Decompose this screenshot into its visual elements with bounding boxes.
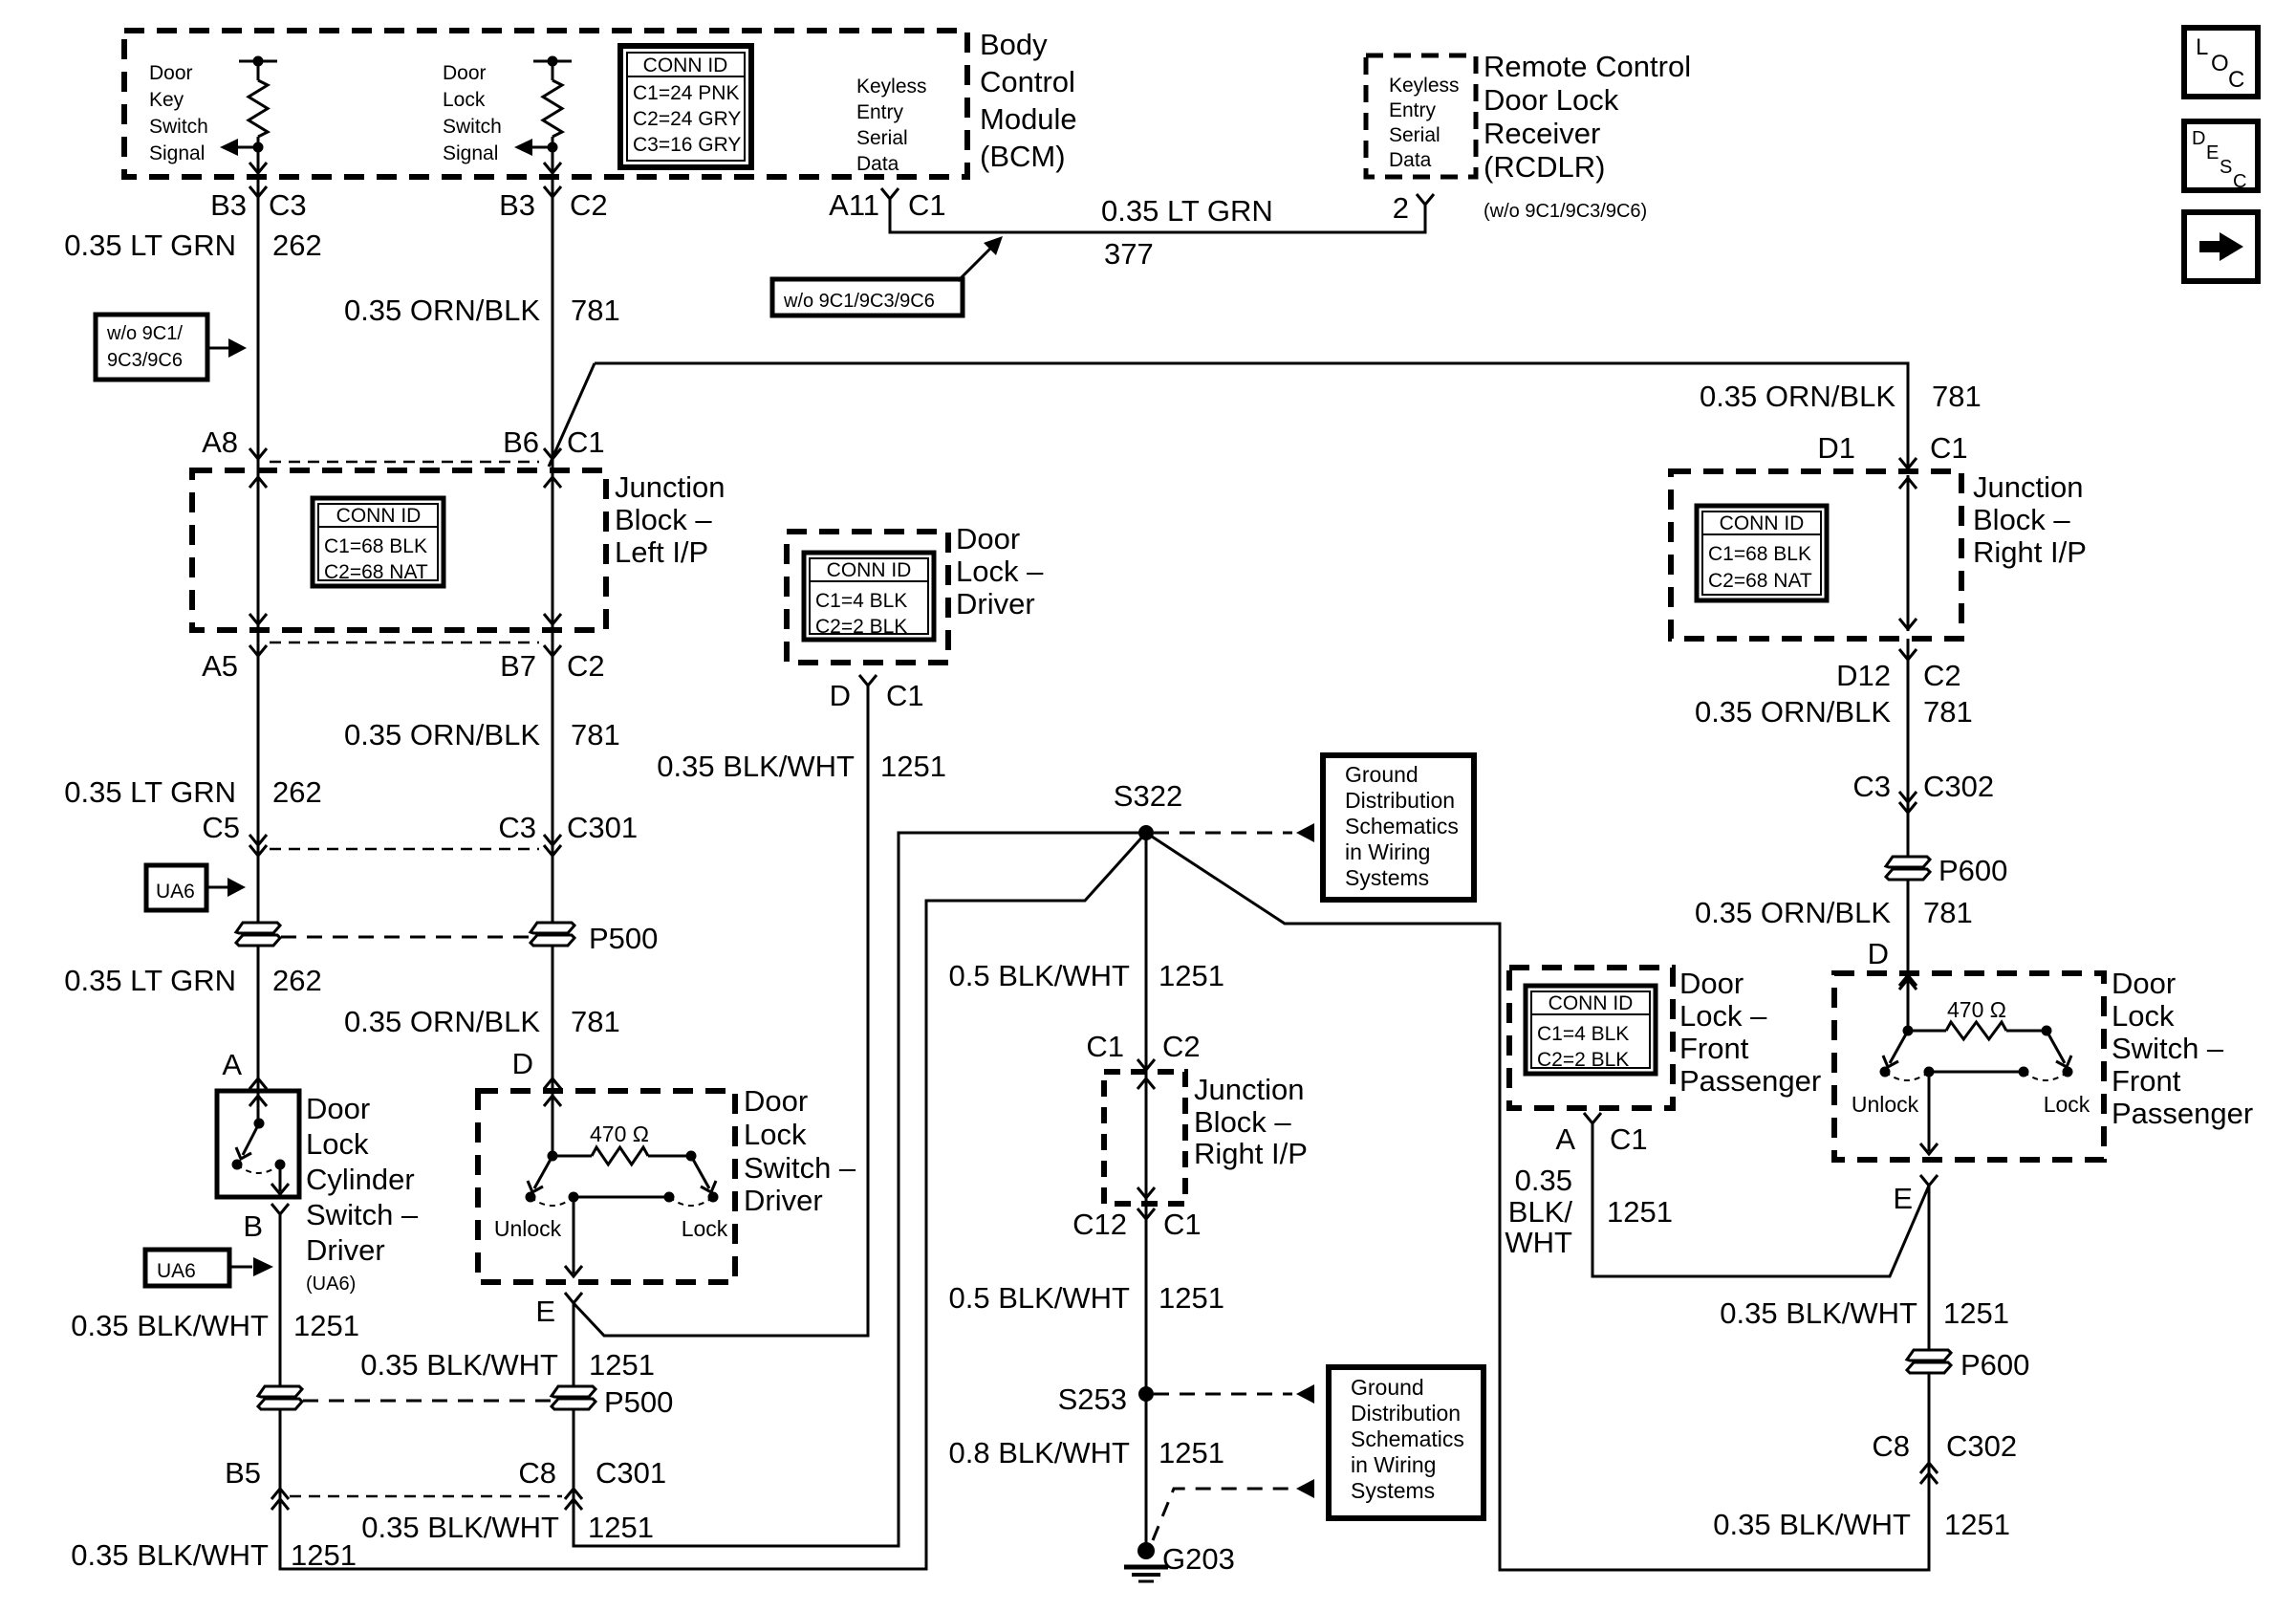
pin label A C1 (passenger door lock): [1555, 1122, 1647, 1156]
pin label B (cylinder switch): [243, 1209, 263, 1243]
pin label Keyless Entry Serial Data (BCM): [856, 76, 927, 175]
svg-text:Entry: Entry: [1389, 99, 1437, 121]
svg-text:1251: 1251: [1159, 1436, 1224, 1469]
option flag box w/o 9C1/9C3/9C6 (serial data): [772, 236, 1003, 316]
svg-text:781: 781: [571, 294, 620, 327]
svg-text:D: D: [830, 679, 851, 712]
svg-text:470 Ω: 470 Ω: [1947, 997, 2006, 1022]
connector table CONN ID Right I/P: [1697, 506, 1827, 600]
svg-text:G203: G203: [1162, 1542, 1235, 1576]
svg-text:P500: P500: [604, 1385, 673, 1419]
switch SW2 Door Lock Switch - Driver box: [478, 1091, 735, 1282]
svg-text:C3: C3: [269, 188, 307, 222]
svg-text:781: 781: [1923, 695, 1973, 729]
wire 1251 BLK/WHT from passenger door lock A/C1 to switch E: [1584, 1113, 1929, 1276]
svg-text:0.35 BLK/WHT: 0.35 BLK/WHT: [71, 1309, 269, 1342]
svg-text:Door: Door: [2112, 967, 2176, 1000]
wire 1251 BLK/WHT from S322 to passenger switch E loop: [1146, 833, 1938, 1570]
svg-text:0.35 LT GRN: 0.35 LT GRN: [64, 229, 236, 262]
svg-text:2: 2: [1393, 191, 1409, 225]
dashed link P500 lower: [303, 1400, 551, 1403]
wire label 0.35 ORN/BLK 781 (right top): [1700, 380, 1982, 413]
svg-text:UA6: UA6: [156, 881, 195, 903]
svg-text:Block –: Block –: [615, 503, 712, 536]
svg-text:A: A: [1555, 1122, 1575, 1156]
svg-text:C1: C1: [908, 188, 946, 222]
svg-text:C2=68 NAT: C2=68 NAT: [1708, 570, 1812, 592]
connector box Door Lock - Driver: [787, 532, 948, 663]
legend box DESC: [2184, 121, 2258, 192]
junction block Right I/P box (middle): [1104, 1072, 1185, 1204]
wire label 0.35 ORN/BLK 781 (lower): [344, 1005, 620, 1038]
svg-text:0.35 LT GRN: 0.35 LT GRN: [64, 775, 236, 809]
svg-text:Schematics: Schematics: [1351, 1426, 1464, 1451]
component name text Door Lock Switch - Driver: [744, 1084, 856, 1217]
svg-text:C1=4 BLK: C1=4 BLK: [1537, 1023, 1629, 1045]
svg-text:Lock: Lock: [2112, 999, 2175, 1033]
dashed link P500 columns A-D: [281, 936, 529, 939]
component name text Door Lock Switch - Front Passenger: [2112, 967, 2253, 1130]
svg-text:C8: C8: [1872, 1429, 1910, 1463]
svg-text:UA6: UA6: [157, 1260, 196, 1282]
svg-text:0.35 BLK/WHT: 0.35 BLK/WHT: [361, 1511, 559, 1544]
svg-text:C1: C1: [567, 425, 605, 459]
connector table CONN ID Door Lock Front Passenger: [1526, 986, 1656, 1074]
svg-text:C8: C8: [518, 1456, 556, 1490]
svg-text:Switch: Switch: [149, 116, 208, 138]
svg-text:262: 262: [272, 229, 322, 262]
svg-text:Switch: Switch: [443, 116, 502, 138]
svg-text:Lock –: Lock –: [1679, 999, 1767, 1033]
svg-text:CONN ID: CONN ID: [336, 505, 422, 527]
svg-text:P600: P600: [1939, 854, 2007, 887]
svg-text:Ground: Ground: [1351, 1375, 1424, 1400]
pin label E (driver switch): [535, 1295, 555, 1328]
wire label 0.35 ORN/BLK 781 (right mid): [1695, 695, 1973, 729]
connector table CONN ID for BCM: [620, 46, 751, 167]
component name text Door Lock - Driver: [956, 522, 1044, 620]
svg-text:Passenger: Passenger: [1679, 1064, 1821, 1098]
svg-text:C2: C2: [570, 188, 608, 222]
pin label E (passenger switch): [1893, 1182, 1913, 1215]
wire 781 ORN/BLK column from BCM B3/C2 to door lock switch driver D: [544, 147, 561, 1091]
svg-text:Entry: Entry: [856, 101, 904, 123]
svg-text:0.35 BLK/WHT: 0.35 BLK/WHT: [1720, 1296, 1917, 1330]
svg-text:Junction: Junction: [1973, 470, 2083, 504]
wire 262 LT GRN column from BCM B3/C3 to cylinder switch A: [249, 147, 267, 1091]
connector boundary line at A8/B6: [270, 461, 539, 464]
svg-text:C3: C3: [498, 811, 536, 844]
svg-text:B3: B3: [210, 188, 247, 222]
module name text Body Control Module (BCM): [980, 28, 1077, 173]
svg-text:w/o 9C1/9C3/9C6: w/o 9C1/9C3/9C6: [783, 291, 935, 312]
svg-text:S253: S253: [1058, 1382, 1127, 1416]
wire serial data 377 from BCM A11 to RCDLR pin 2: [881, 188, 1434, 232]
svg-text:0.35 ORN/BLK: 0.35 ORN/BLK: [344, 294, 540, 327]
inline connector pass-through at column B (P500 lower left half): [258, 1386, 302, 1409]
svg-text:Ground: Ground: [1345, 762, 1419, 787]
svg-text:CONN ID: CONN ID: [827, 559, 912, 581]
wire label 0.35 ORN/BLK 781 (right lower): [1695, 896, 1973, 929]
svg-text:Keyless: Keyless: [856, 76, 927, 98]
svg-text:S322: S322: [1114, 779, 1182, 813]
svg-text:0.35 ORN/BLK: 0.35 ORN/BLK: [344, 1005, 540, 1038]
svg-text:C1=4 BLK: C1=4 BLK: [815, 590, 907, 612]
svg-text:C301: C301: [596, 1456, 666, 1490]
svg-text:Control: Control: [980, 65, 1075, 98]
svg-text:1251: 1251: [1159, 1281, 1224, 1315]
svg-text:781: 781: [571, 718, 620, 751]
svg-text:377: 377: [1104, 237, 1154, 271]
svg-text:Keyless: Keyless: [1389, 75, 1460, 97]
pin label A8: [202, 425, 238, 459]
wire 1251 BLK/WHT from driver door lock D/C1 to switch E: [574, 675, 877, 1336]
svg-text:E: E: [535, 1295, 555, 1328]
svg-text:781: 781: [1932, 380, 1982, 413]
svg-text:C2=2 BLK: C2=2 BLK: [1537, 1049, 1629, 1071]
svg-text:0.35 BLK/WHT: 0.35 BLK/WHT: [1713, 1508, 1911, 1541]
svg-text:Data: Data: [856, 153, 899, 175]
switch SW1 internals: [232, 1091, 290, 1194]
svg-text:Door: Door: [149, 62, 193, 84]
svg-text:Door: Door: [744, 1084, 808, 1118]
dashed reference arrow from S322 to ground distribution note: [1154, 823, 1314, 842]
svg-text:(RCDLR): (RCDLR): [1484, 150, 1605, 184]
dashed reference arrow from G203 to ground distribution note: [1153, 1479, 1314, 1540]
svg-text:1251: 1251: [588, 1511, 654, 1544]
component name text Junction Block - Right I/P (middle): [1194, 1073, 1308, 1170]
resistor R1 Door Key Switch pull-up: [239, 56, 277, 153]
svg-text:Door: Door: [306, 1092, 370, 1125]
svg-text:C1: C1: [1930, 431, 1968, 465]
svg-text:Switch –: Switch –: [306, 1198, 419, 1231]
svg-text:C3: C3: [1852, 770, 1891, 803]
svg-text:WHT: WHT: [1505, 1226, 1572, 1259]
signal arrow Door Lock Switch: [514, 139, 552, 156]
svg-text:Door: Door: [956, 522, 1020, 555]
connector boundary line at B5/C8 (C301): [290, 1495, 562, 1498]
wire 781 ORN/BLK long run from B6/C1 to right junction block D1/C1: [595, 363, 1917, 468]
svg-text:B5: B5: [225, 1456, 261, 1490]
pin label D (passenger lock switch): [1868, 937, 1889, 970]
switch SW1 Door Lock Cylinder Switch - Driver box: [217, 1091, 299, 1197]
wire label 0.35 LT GRN 262 (middle): [64, 775, 322, 809]
svg-text:Right I/P: Right I/P: [1194, 1137, 1308, 1170]
svg-text:Junction: Junction: [615, 470, 725, 504]
wire label 0.35 BLK/WHT 1251 (driver E): [360, 1348, 655, 1382]
svg-text:0.35: 0.35: [1515, 1164, 1572, 1197]
svg-text:D: D: [512, 1047, 533, 1080]
wire label 0.35 ORN/BLK 781 (middle): [344, 718, 620, 751]
svg-text:C: C: [2228, 67, 2244, 93]
svg-text:C3=16 GRY: C3=16 GRY: [633, 134, 741, 156]
svg-text:9C3/9C6: 9C3/9C6: [107, 350, 183, 371]
svg-text:781: 781: [1923, 896, 1973, 929]
svg-text:Signal: Signal: [149, 142, 205, 164]
svg-text:1251: 1251: [291, 1538, 357, 1572]
pin label B5: [225, 1456, 261, 1490]
resistor R2 Door Lock Switch pull-up: [533, 56, 572, 153]
node chevrons C8/C302: [1920, 1463, 1938, 1484]
svg-text:C2=2 BLK: C2=2 BLK: [815, 616, 907, 638]
svg-text:C1=68 BLK: C1=68 BLK: [324, 535, 427, 557]
svg-text:B3: B3: [499, 188, 535, 222]
svg-text:Switch –: Switch –: [744, 1151, 856, 1185]
svg-text:CONN ID: CONN ID: [643, 54, 728, 76]
option flag box UA6 (upper): [146, 865, 246, 910]
pin label C3 C302: [1852, 770, 1994, 803]
splice S322: [1114, 779, 1182, 840]
svg-text:Remote Control: Remote Control: [1484, 50, 1691, 83]
svg-text:O: O: [2211, 51, 2229, 76]
note box Ground Distribution Schematics in Wiring Systems (lower): [1329, 1367, 1484, 1518]
pin label Door Key Switch Signal: [149, 62, 208, 164]
inline connector pass-through P600 (upper): [1886, 854, 2007, 887]
svg-text:C1: C1: [1163, 1208, 1202, 1241]
svg-text:Module: Module: [980, 102, 1077, 136]
svg-text:Unlock: Unlock: [494, 1216, 562, 1241]
connector table CONN ID Left I/P: [313, 498, 444, 586]
junction block Left I/P box: [192, 470, 606, 630]
svg-text:CONN ID: CONN ID: [1549, 992, 1634, 1014]
svg-text:0.35 BLK/WHT: 0.35 BLK/WHT: [71, 1538, 269, 1572]
wire label 0.5 BLK/WHT 1251 (below C12/C1): [949, 1281, 1224, 1315]
svg-text:B: B: [243, 1209, 263, 1243]
svg-text:A5: A5: [202, 649, 238, 683]
svg-text:w/o 9C1/: w/o 9C1/: [106, 323, 183, 344]
svg-text:Driver: Driver: [744, 1184, 823, 1217]
svg-text:C: C: [2233, 171, 2246, 192]
svg-text:262: 262: [272, 964, 322, 997]
svg-text:0.35 LT GRN: 0.35 LT GRN: [1101, 194, 1273, 228]
svg-text:Door: Door: [1679, 967, 1744, 1000]
svg-text:Lock –: Lock –: [956, 555, 1044, 588]
svg-text:(BCM): (BCM): [980, 140, 1066, 173]
svg-text:0.5 BLK/WHT: 0.5 BLK/WHT: [949, 1281, 1131, 1315]
legend box LOC: [2184, 28, 2258, 97]
svg-text:C2=24 GRY: C2=24 GRY: [633, 108, 741, 130]
svg-text:0.35 BLK/WHT: 0.35 BLK/WHT: [360, 1348, 558, 1382]
svg-text:E: E: [1893, 1182, 1913, 1215]
legend box forward arrow: [2184, 212, 2258, 281]
svg-text:L: L: [2196, 34, 2208, 60]
svg-text:C302: C302: [1923, 770, 1994, 803]
ground G203: [1124, 1542, 1235, 1581]
svg-text:Unlock: Unlock: [1852, 1092, 1919, 1117]
pin label B7 C2: [500, 649, 605, 683]
pin label D C1 (driver door lock): [830, 679, 924, 712]
svg-text:Distribution: Distribution: [1345, 788, 1455, 813]
wire 1251 BLK/WHT from S322 to driver switch E loop: [565, 833, 1146, 1546]
option flag box UA6 (lower): [145, 1250, 273, 1286]
svg-text:Door Lock: Door Lock: [1484, 83, 1619, 117]
svg-text:Front: Front: [2112, 1064, 2181, 1098]
node B6/C1 Y with branch diagonal: [544, 363, 595, 467]
pin label D1 C1: [1817, 431, 1967, 465]
svg-text:Data: Data: [1389, 149, 1432, 171]
svg-text:0.8 BLK/WHT: 0.8 BLK/WHT: [949, 1436, 1131, 1469]
svg-text:S: S: [2220, 157, 2232, 178]
svg-text:1251: 1251: [1607, 1195, 1673, 1229]
pin label C1 C2 (mid junction): [1086, 1030, 1200, 1063]
pin label D12 C2: [1836, 659, 1961, 692]
pin label A11 C1: [829, 188, 946, 222]
node chevrons B5 and C8/C301: [271, 1489, 582, 1510]
svg-text:Receiver: Receiver: [1484, 117, 1600, 150]
svg-text:470 Ω: 470 Ω: [590, 1121, 649, 1146]
svg-text:Driver: Driver: [956, 587, 1035, 620]
svg-text:Lock: Lock: [443, 89, 486, 111]
inline connector pass-through P600 (lower): [1907, 1348, 2029, 1382]
wire label 0.35 BLK/WHT 1251 (cylinder B): [71, 1309, 359, 1342]
wire label 0.35 BLK/WHT 1251 (passenger E lower): [1720, 1296, 2009, 1330]
switch SW3 internals with resistor 470 ohm: [1852, 973, 2090, 1154]
svg-text:in Wiring: in Wiring: [1345, 839, 1430, 864]
svg-text:A11: A11: [829, 188, 879, 222]
svg-text:C301: C301: [567, 811, 638, 844]
pin 2 label RCDLR: [1393, 191, 1409, 225]
svg-text:A: A: [222, 1048, 242, 1081]
svg-text:1251: 1251: [1944, 1508, 2010, 1541]
svg-text:P500: P500: [589, 922, 658, 955]
pin label C8 C301: [518, 1456, 666, 1490]
svg-text:C1: C1: [1610, 1122, 1648, 1156]
svg-text:0.35 LT GRN: 0.35 LT GRN: [64, 964, 236, 997]
svg-text:D: D: [2192, 128, 2205, 149]
wire label 0.35 BLK/WHT 1251 (bottom middle): [361, 1511, 654, 1544]
svg-text:B7: B7: [500, 649, 536, 683]
wire label 0.35 LT GRN 262 (top): [64, 229, 322, 262]
option flag box w/o 9C1/9C3/9C6 (left): [96, 315, 247, 380]
svg-text:1251: 1251: [880, 750, 946, 783]
svg-text:C302: C302: [1946, 1429, 2017, 1463]
svg-text:BLK/: BLK/: [1508, 1195, 1573, 1229]
svg-text:C5: C5: [202, 811, 240, 844]
pin label C12 C1 (mid junction): [1072, 1208, 1202, 1241]
svg-text:Signal: Signal: [443, 142, 498, 164]
svg-text:0.35 BLK/WHT: 0.35 BLK/WHT: [657, 750, 855, 783]
svg-text:Cylinder: Cylinder: [306, 1163, 415, 1196]
component name text Door Lock - Front Passenger: [1679, 967, 1821, 1098]
wire 1251 BLK/WHT middle column S322 to G203: [1137, 833, 1155, 1547]
pin label B3 C2: [499, 188, 608, 222]
svg-text:CONN ID: CONN ID: [1720, 512, 1805, 534]
component name text Junction Block - Left I/P: [615, 470, 725, 569]
svg-text:Block –: Block –: [1973, 503, 2070, 536]
svg-text:Block –: Block –: [1194, 1105, 1291, 1139]
switch SW2 internals with resistor 470 ohm: [494, 1091, 728, 1276]
svg-text:Passenger: Passenger: [2112, 1097, 2253, 1130]
svg-text:D12: D12: [1836, 659, 1891, 692]
svg-text:0.35 ORN/BLK: 0.35 ORN/BLK: [1695, 695, 1891, 729]
inline connector pass-through at column A (P500 left half): [236, 923, 280, 946]
note box Ground Distribution Schematics in Wiring Systems (upper): [1323, 755, 1474, 900]
svg-text:Door: Door: [443, 62, 487, 84]
svg-text:1251: 1251: [1943, 1296, 2009, 1330]
wire label 0.35 BLK/WHT 1251 (bottom left): [71, 1538, 357, 1572]
inline connector pass-through P500 at column D: [531, 922, 658, 955]
dashed reference arrow from S253 to ground distribution note: [1154, 1384, 1314, 1404]
wire label 0.35 BLK/WHT 1251 (driver door lock): [657, 750, 946, 783]
svg-text:in Wiring: in Wiring: [1351, 1452, 1436, 1477]
svg-text:Schematics: Schematics: [1345, 814, 1459, 838]
svg-text:D1: D1: [1817, 431, 1855, 465]
svg-text:C2: C2: [567, 649, 605, 683]
junction block right internal wire: [1899, 475, 1917, 631]
pin label Door Lock Switch Signal: [443, 62, 502, 164]
wire 1251 BLK/WHT from S322 to cylinder switch B loop: [271, 833, 1146, 1569]
wire label 0.5 BLK/WHT 1251 (above C1/C2): [949, 959, 1224, 992]
svg-text:E: E: [2206, 142, 2219, 163]
switch SW3 Door Lock Switch - Front Passenger box: [1834, 973, 2104, 1160]
svg-text:Front: Front: [1679, 1032, 1749, 1065]
svg-text:1251: 1251: [589, 1348, 655, 1382]
wire label 0.35 LT GRN 377: [1101, 194, 1273, 271]
svg-text:C1: C1: [886, 679, 924, 712]
wire 781 ORN/BLK right column from D12/C2 to passenger switch D: [1899, 639, 1917, 986]
svg-text:B6: B6: [503, 425, 539, 459]
pin label C5: [202, 811, 240, 844]
junction block left internal wire B column: [552, 475, 554, 626]
svg-text:Lock: Lock: [2044, 1092, 2090, 1117]
splice S253: [1058, 1382, 1154, 1416]
svg-text:C1: C1: [1086, 1030, 1124, 1063]
component name text Junction Block - Right I/P (right): [1973, 470, 2087, 569]
svg-text:C2: C2: [1923, 659, 1961, 692]
svg-text:Distribution: Distribution: [1351, 1401, 1461, 1426]
svg-text:262: 262: [272, 775, 322, 809]
svg-text:Switch –: Switch –: [2112, 1032, 2224, 1065]
module box U1 Body Control Module (BCM): [124, 31, 967, 177]
svg-text:Right I/P: Right I/P: [1973, 535, 2087, 569]
svg-text:Driver: Driver: [306, 1233, 385, 1267]
svg-text:Left I/P: Left I/P: [615, 535, 708, 569]
svg-text:Body: Body: [980, 28, 1048, 61]
connector table CONN ID Door Lock Driver: [804, 553, 934, 640]
svg-text:A8: A8: [202, 425, 238, 459]
module box U2 Remote Control Door Lock Receiver (RCDLR): [1366, 55, 1476, 177]
pin label D (driver lock switch): [512, 1047, 533, 1080]
svg-text:C1=24 PNK: C1=24 PNK: [633, 82, 739, 104]
pin label C8 C302: [1872, 1429, 2017, 1463]
wire label 0.35 LT GRN 262 (lower): [64, 964, 322, 997]
pin label B3 C3: [210, 188, 307, 222]
wire label 0.35 BLK/WHT 1251 (stacked): [1505, 1164, 1673, 1259]
pin label A5: [202, 649, 238, 683]
junction block Right I/P box (right): [1671, 471, 1961, 639]
pin label A (cylinder switch): [222, 1048, 242, 1081]
module name text Remote Control Door Lock Receiver (RCDLR): [1484, 50, 1691, 222]
connector boundary line at A5/B7: [270, 642, 539, 644]
connector box Door Lock - Front Passenger: [1509, 968, 1673, 1108]
svg-text:C2: C2: [1162, 1030, 1201, 1063]
svg-text:0.35 ORN/BLK: 0.35 ORN/BLK: [1695, 896, 1891, 929]
svg-text:0.35 ORN/BLK: 0.35 ORN/BLK: [1700, 380, 1895, 413]
svg-text:0.5 BLK/WHT: 0.5 BLK/WHT: [949, 959, 1131, 992]
wire label 0.8 BLK/WHT 1251: [949, 1436, 1224, 1469]
svg-text:Serial: Serial: [1389, 124, 1440, 146]
pin label Keyless Entry Serial Data (RCDLR): [1389, 75, 1460, 171]
svg-text:Lock: Lock: [682, 1216, 728, 1241]
connector boundary line at C5/C3 (C301): [270, 848, 539, 851]
svg-text:Systems: Systems: [1351, 1478, 1435, 1503]
svg-text:C2=68 NAT: C2=68 NAT: [324, 561, 428, 583]
svg-text:C12: C12: [1072, 1208, 1127, 1241]
svg-text:Systems: Systems: [1345, 865, 1429, 890]
pin label B6 C1: [503, 425, 605, 459]
svg-text:(w/o 9C1/9C3/9C6): (w/o 9C1/9C3/9C6): [1484, 201, 1647, 222]
svg-text:Serial: Serial: [856, 127, 908, 149]
